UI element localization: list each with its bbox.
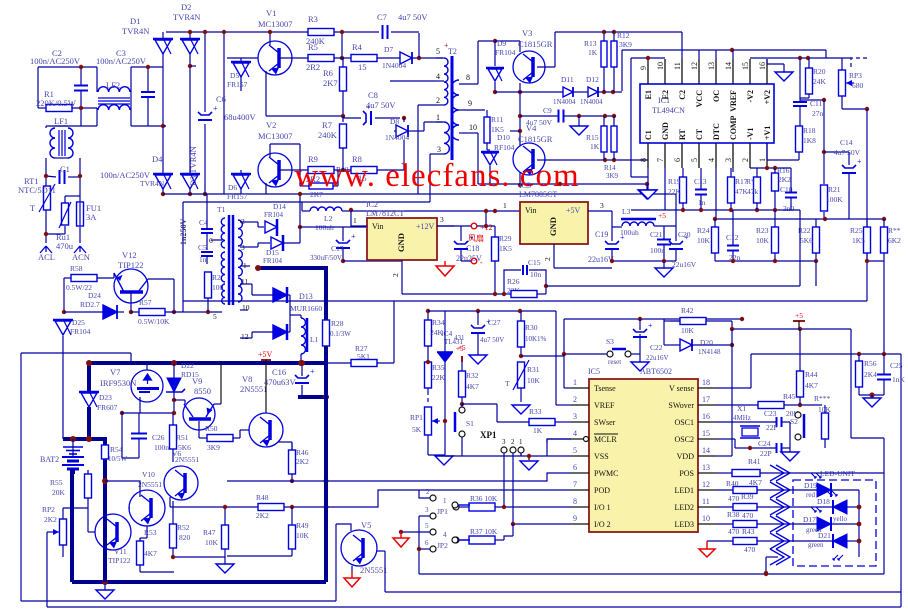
svg-text:11: 11 [702,497,710,506]
svg-text:R19: R19 [668,177,681,186]
svg-text:1: 1 [758,158,767,162]
svg-text:LM7805CT: LM7805CT [519,190,557,199]
svg-text:R13: R13 [584,39,597,48]
svg-text:PWMC: PWMC [594,469,618,478]
svg-text:1K: 1K [590,142,600,151]
svg-text:VSS: VSS [594,452,609,461]
svg-text:+5: +5 [795,311,803,320]
svg-text:R46: R46 [296,448,309,457]
svg-text:IC5: IC5 [588,367,600,376]
svg-text:680: 680 [852,81,864,90]
svg-text:1K5: 1K5 [852,236,865,245]
svg-text:R6: R6 [323,68,333,78]
svg-text:2N5551: 2N5551 [138,480,162,489]
svg-text:4: 4 [707,158,716,162]
svg-text:2: 2 [426,488,430,496]
svg-text:R51: R51 [176,433,189,442]
svg-text:4K7: 4K7 [805,381,818,390]
svg-text:22u16V: 22u16V [588,255,614,264]
svg-text:D25: D25 [72,318,85,327]
svg-text:C1: C1 [644,130,653,140]
svg-text:470u63V: 470u63V [264,377,297,387]
svg-text:1N4004: 1N4004 [385,133,409,142]
svg-text:1: 1 [436,113,440,122]
svg-text:D6: D6 [228,183,237,192]
svg-text:10K: 10K [756,236,770,245]
svg-text:470: 470 [728,494,740,503]
svg-text:GND: GND [661,122,670,140]
svg-text:RP3: RP3 [849,71,862,80]
svg-text:RF104: RF104 [494,143,515,152]
svg-text:S1: S1 [466,419,474,428]
svg-text:V5: V5 [361,520,371,530]
svg-text:C16: C16 [272,367,286,377]
svg-text:NTC/5D11: NTC/5D11 [18,185,56,195]
svg-text:+5: +5 [658,211,666,220]
svg-text:10K1%: 10K1% [525,335,547,343]
svg-text:R11: R11 [491,115,503,124]
svg-text:R16: R16 [777,166,790,175]
svg-text:R***: R*** [814,394,831,403]
svg-text:C8: C8 [368,90,378,100]
svg-text:2: 2 [573,395,577,404]
svg-text:9: 9 [639,66,648,70]
svg-text:D24: D24 [88,291,101,300]
svg-text:+: + [620,233,625,242]
svg-text:5: 5 [690,158,699,162]
svg-text:100n/AC250V: 100n/AC250V [96,56,147,66]
svg-text:13: 13 [702,463,710,472]
svg-text:R33: R33 [529,407,542,416]
svg-text:D7: D7 [384,45,393,54]
svg-text:+5: +5 [456,345,464,353]
svg-text:D17: D17 [803,515,816,524]
svg-text:1nK: 1nK [892,375,906,384]
svg-text:R43: R43 [742,527,755,536]
svg-text:C21: C21 [650,230,663,239]
svg-text:1N4004: 1N4004 [553,98,576,106]
svg-text:FR607: FR607 [97,403,118,412]
svg-text:3: 3 [573,412,577,421]
svg-text:OSC1: OSC1 [674,418,694,427]
svg-text:SWser: SWser [594,418,616,427]
svg-text:1N4004: 1N4004 [580,98,603,106]
svg-text:2: 2 [511,438,515,446]
svg-text:R36 10K: R36 10K [470,494,498,503]
svg-text:C17: C17 [331,244,344,253]
svg-text:D19: D19 [804,481,817,490]
svg-text:S2: S2 [790,417,798,426]
svg-text:R32: R32 [466,371,479,380]
svg-text:LED2: LED2 [674,503,694,512]
svg-text:+: + [310,367,315,376]
svg-text:7: 7 [573,480,577,489]
svg-text:-V1: -V1 [746,128,755,140]
svg-text:2K2: 2K2 [296,457,309,466]
svg-text:D15: D15 [266,248,279,257]
svg-text:6: 6 [673,158,682,162]
svg-text:L1: L1 [310,335,319,344]
svg-text:IC4: IC4 [441,329,453,338]
svg-text:T: T [505,379,510,388]
svg-text:2: 2 [391,273,400,277]
svg-text:15: 15 [702,429,710,438]
svg-text:T: T [30,203,36,213]
svg-text:Vin: Vin [525,206,537,215]
svg-text:100K: 100K [826,195,843,204]
svg-text:Tsense: Tsense [594,384,616,393]
svg-text:4K7: 4K7 [749,478,762,487]
svg-text:100n: 100n [154,443,169,452]
svg-text:R55: R55 [50,478,63,487]
svg-text:1n: 1n [698,198,706,207]
svg-text:+: + [213,104,218,113]
svg-text:14: 14 [724,62,733,70]
svg-text:3K9: 3K9 [207,443,220,452]
svg-text:C20: C20 [678,230,691,239]
svg-text:10K: 10K [205,538,219,547]
svg-text:0.1/3W: 0.1/3W [330,330,351,338]
svg-text:3: 3 [437,145,441,154]
svg-text:240K: 240K [318,130,338,140]
svg-text:MC13007: MC13007 [258,131,292,141]
svg-text:JP2: JP2 [437,541,448,550]
svg-text:5K1: 5K1 [357,352,370,361]
svg-text:R3: R3 [308,14,318,24]
svg-text:3: 3 [724,158,733,162]
svg-text:4u7 50V: 4u7 50V [480,336,504,344]
svg-text:10K: 10K [527,376,541,385]
svg-text:BAT2: BAT2 [40,455,59,464]
svg-text:R24: R24 [697,226,710,235]
svg-text:11: 11 [241,277,248,286]
svg-text:11: 11 [673,62,682,70]
svg-text:V2: V2 [266,120,276,130]
svg-text:R40: R40 [726,479,739,488]
svg-text:+12V: +12V [416,222,435,231]
svg-text:4K7: 4K7 [466,382,479,391]
svg-text:1K8: 1K8 [803,136,816,145]
svg-text:FR157: FR157 [227,192,248,201]
svg-text:RP2: RP2 [42,505,55,514]
svg-text:VREF: VREF [594,401,615,410]
svg-text:R14: R14 [604,164,616,172]
svg-text:17: 17 [702,395,710,404]
svg-text:3n0: 3n0 [783,204,795,213]
svg-text:470: 470 [744,545,756,554]
svg-text:C27: C27 [488,318,501,327]
svg-text:C1: C1 [60,164,70,174]
svg-text:C1815GR: C1815GR [518,39,553,49]
svg-text:1K5: 1K5 [499,244,512,253]
svg-text:C7: C7 [377,12,387,22]
svg-text:2K2: 2K2 [256,511,269,520]
svg-text:+5V: +5V [258,350,273,359]
svg-text:ACL: ACL [38,252,55,262]
svg-text:10K: 10K [681,326,695,335]
svg-text:VCC: VCC [695,90,704,108]
svg-text:I/O 1: I/O 1 [594,503,611,512]
svg-text:C25: C25 [890,361,903,370]
svg-text:5: 5 [573,446,577,455]
svg-text:+: + [857,157,862,166]
svg-text:1K: 1K [533,426,543,435]
svg-text:ABT6502: ABT6502 [640,367,672,376]
svg-text:8: 8 [639,158,648,162]
svg-text:22P: 22P [760,449,772,458]
svg-text:R49: R49 [296,521,309,530]
svg-text:4u7 50V: 4u7 50V [834,148,861,157]
svg-text:FR157: FR157 [227,80,248,89]
svg-text:POS: POS [679,469,694,478]
svg-text:www. elecfans. com: www. elecfans. com [294,158,579,194]
svg-text:RD2.7: RD2.7 [80,300,100,309]
svg-text:D23: D23 [99,393,112,402]
svg-text:8: 8 [466,73,470,82]
svg-text:MCLR: MCLR [594,435,617,444]
svg-text:4: 4 [443,531,447,539]
svg-text:0.5W/10K: 0.5W/10K [138,317,170,326]
svg-text:C19: C19 [595,230,608,239]
svg-text:16: 16 [758,62,767,70]
svg-text:+5V: +5V [566,206,581,215]
svg-text:D2: D2 [181,2,191,12]
svg-text:13: 13 [707,62,716,70]
svg-text:22u25V: 22u25V [456,254,482,263]
svg-text:3: 3 [600,201,604,210]
svg-text:R39: R39 [741,492,754,501]
svg-text:R38: R38 [727,510,740,519]
svg-text:3K9: 3K9 [619,40,632,49]
svg-text:R34: R34 [432,318,445,327]
svg-text:10n: 10n [530,270,542,279]
svg-text:2R2: 2R2 [306,62,320,72]
svg-text:FR104: FR104 [263,257,283,265]
svg-text:V9: V9 [192,376,202,386]
svg-text:1K: 1K [588,48,598,57]
svg-text:R52: R52 [177,523,190,532]
svg-text:+: + [444,41,449,50]
svg-text:10/5W: 10/5W [108,455,127,463]
svg-text:TIP122: TIP122 [118,260,144,270]
svg-text:R50: R50 [205,424,218,433]
svg-text:3K9: 3K9 [606,172,619,180]
svg-text:IRF9530N: IRF9530N [100,378,136,388]
svg-text:V8: V8 [242,374,252,384]
svg-text:24K: 24K [813,77,827,86]
svg-text:R54: R54 [110,445,123,454]
svg-text:red: red [806,491,815,499]
svg-text:9: 9 [468,99,472,108]
svg-text:D13: D13 [299,292,313,301]
svg-text:C23: C23 [764,409,777,418]
svg-text:R5: R5 [308,42,318,52]
svg-text:5: 5 [425,522,429,530]
svg-text:FR104: FR104 [70,327,91,336]
svg-text:R4: R4 [352,42,363,52]
svg-text:1: 1 [573,378,577,387]
svg-text:E1: E1 [644,90,653,99]
svg-text:4K7: 4K7 [144,549,157,558]
svg-text:R48: R48 [256,493,269,502]
svg-text:V sense: V sense [669,384,694,393]
svg-text:TVR4N: TVR4N [173,12,200,22]
svg-text:10K: 10K [296,531,310,540]
svg-text:15: 15 [741,62,750,70]
svg-text:R28: R28 [331,319,344,328]
svg-text:D21: D21 [818,531,831,540]
svg-text:D10: D10 [497,133,510,142]
svg-text:2: 2 [436,96,440,105]
svg-text:I/O 2: I/O 2 [594,520,611,529]
svg-text:R26: R26 [507,277,520,286]
svg-text:4u7 50V: 4u7 50V [366,100,396,110]
svg-text:+V2: +V2 [763,90,772,104]
svg-text:D18: D18 [817,497,830,506]
svg-text:C12: C12 [726,233,739,242]
svg-text:MC13007: MC13007 [258,19,292,29]
svg-text:4u7 50V: 4u7 50V [526,118,553,127]
svg-text:2N5551: 2N5551 [175,455,199,464]
svg-text:10: 10 [469,123,477,132]
svg-text:1n: 1n [199,255,207,264]
svg-text:IC3: IC3 [519,181,531,190]
svg-text:V10: V10 [142,470,155,479]
svg-text:C18: C18 [466,244,479,253]
svg-text:3: 3 [440,215,444,224]
svg-text:C5: C5 [198,243,207,252]
svg-text:R21: R21 [828,185,841,194]
svg-text:22P: 22P [766,423,778,432]
svg-text:TIP122: TIP122 [108,556,131,565]
svg-text:R20: R20 [813,67,826,76]
svg-text:431: 431 [454,334,465,342]
svg-text:+: + [469,233,474,242]
svg-text:47k: 47k [747,187,759,196]
svg-text:R23: R23 [756,226,769,235]
svg-text:15: 15 [358,62,367,72]
svg-text:470u: 470u [56,241,74,251]
svg-text:1n250V: 1n250V [179,219,188,245]
svg-text:12: 12 [702,480,710,489]
svg-text:Vin: Vin [372,222,384,231]
svg-text:C22: C22 [650,343,663,352]
svg-text:reset: reset [608,358,621,366]
svg-text:R31: R31 [527,365,540,374]
svg-text:100n/AC250V: 100n/AC250V [30,56,81,66]
svg-text:820: 820 [179,533,191,542]
svg-text:+: + [648,321,653,330]
svg-text:S3: S3 [606,337,614,346]
svg-text:LED1: LED1 [674,486,694,495]
svg-text:C14: C14 [840,138,853,147]
svg-text:L3: L3 [622,207,631,216]
svg-text:TL494CN: TL494CN [652,106,685,115]
svg-text:9: 9 [573,514,577,523]
svg-text:1: 1 [443,497,447,505]
svg-text:2N5551: 2N5551 [360,565,387,575]
svg-text:X1: X1 [737,404,746,413]
svg-text:R47: R47 [203,528,216,537]
svg-text:+V1: +V1 [763,126,772,140]
svg-text:R12: R12 [617,31,630,40]
svg-text:3: 3 [425,506,429,514]
svg-text:4: 4 [436,72,440,81]
svg-text:22K: 22K [668,187,682,196]
svg-text:RT: RT [678,129,687,140]
svg-text:SWover: SWover [668,401,694,410]
svg-text:R41: R41 [748,457,761,466]
svg-text:470: 470 [728,527,740,536]
svg-text:FR104: FR104 [495,48,516,57]
svg-text:220K/0.5W: 220K/0.5W [36,98,76,108]
svg-text:1: 1 [503,201,507,210]
svg-text:XP1: XP1 [480,430,497,440]
svg-text:R*: R* [746,177,755,186]
svg-text:R35: R35 [432,363,445,372]
svg-text:8: 8 [573,497,577,506]
svg-text:18: 18 [702,378,710,387]
svg-text:R30: R30 [525,323,538,332]
svg-text:R53: R53 [144,528,157,537]
svg-text:R15: R15 [586,133,599,142]
svg-text:1: 1 [353,216,357,225]
svg-text:4: 4 [573,429,577,438]
svg-text:6K2: 6K2 [888,236,901,245]
svg-text:OC: OC [712,90,721,102]
svg-text:12: 12 [690,62,699,70]
svg-text:LF1: LF1 [54,116,68,126]
svg-text:V7: V7 [110,367,120,377]
svg-text:C26: C26 [152,433,165,442]
svg-text:6: 6 [573,463,577,472]
svg-text:C6: C6 [216,94,226,104]
svg-text:2K2: 2K2 [44,515,57,524]
svg-text:D5: D5 [230,71,239,80]
svg-text:D1: D1 [130,16,140,26]
svg-text:10: 10 [702,514,710,523]
svg-text:VDD: VDD [677,452,695,461]
svg-text:-V2: -V2 [746,90,755,102]
svg-text:D14: D14 [273,202,286,211]
svg-text:1N4004: 1N4004 [382,61,406,70]
svg-text:1: 1 [519,438,523,446]
svg-text:4u7 50V: 4u7 50V [398,12,428,22]
svg-text:V12: V12 [122,250,137,260]
svg-text:D9: D9 [497,39,506,48]
svg-text:OSC2: OSC2 [674,435,694,444]
svg-text:ACN: ACN [72,252,90,262]
svg-text:COMP: COMP [729,115,738,140]
svg-text:5: 5 [213,312,217,321]
svg-text:D12: D12 [586,75,599,84]
svg-text:C15: C15 [528,258,541,267]
svg-text:R2: R2 [212,273,221,282]
svg-text:DTC: DTC [712,123,721,140]
svg-text:R56: R56 [864,359,877,368]
svg-text:2: 2 [543,257,552,261]
svg-text:VREF: VREF [729,90,738,112]
svg-text:+: + [351,232,356,241]
svg-text:R58: R58 [70,264,83,273]
svg-text:R37 10K: R37 10K [470,527,498,536]
svg-text:100n: 100n [650,246,665,255]
svg-text:D20: D20 [700,338,713,347]
svg-text:R45: R45 [783,392,796,401]
svg-text:1N4148: 1N4148 [698,348,721,356]
svg-text:C1815GR: C1815GR [518,134,553,144]
svg-text:CT: CT [695,128,704,140]
